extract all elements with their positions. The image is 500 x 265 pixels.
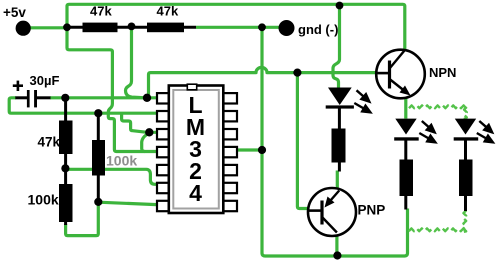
svg-text:47k: 47k — [38, 135, 61, 150]
svg-text:NPN: NPN — [429, 65, 456, 80]
svg-text:47k: 47k — [90, 4, 112, 19]
svg-text:47k: 47k — [157, 4, 179, 19]
svg-text:100k: 100k — [106, 153, 137, 169]
svg-text:gnd (-): gnd (-) — [298, 22, 338, 37]
svg-text:100k: 100k — [28, 192, 59, 208]
svg-text:4: 4 — [189, 180, 202, 206]
svg-text:30µF: 30µF — [30, 73, 60, 88]
svg-text:PNP: PNP — [358, 203, 386, 218]
svg-text:+5v: +5v — [3, 5, 26, 20]
